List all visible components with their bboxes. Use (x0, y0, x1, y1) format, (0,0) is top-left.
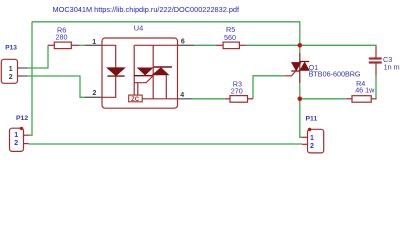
svg-text:560: 560 (224, 33, 236, 42)
svg-text:1: 1 (14, 132, 18, 139)
svg-text:P11: P11 (306, 116, 318, 123)
resistor R5 (216, 42, 246, 49)
LED inside U4 (102, 45, 116, 97)
wire node B to P11 pin1 (300, 99, 302, 138)
label R3 (231, 80, 243, 96)
label P12 (16, 115, 28, 122)
svg-text:1: 1 (92, 39, 96, 46)
label R4 (355, 79, 375, 95)
svg-text:280: 280 (56, 33, 68, 42)
svg-text:2: 2 (310, 143, 314, 150)
svg-text:ZC: ZC (131, 97, 140, 103)
svg-text:1: 1 (9, 66, 13, 73)
wire P13 pin1 to R6 (27, 45, 48, 68)
wire U4 pin4 to R3 (192, 98, 225, 100)
connector P11 (302, 128, 324, 153)
pin 4 (178, 98, 193, 100)
wire R3 to Q1 gate (253, 76, 285, 99)
wire Q1 vertical (node A to node B) (299, 45, 301, 99)
svg-text:BTB06-600BRG: BTB06-600BRG (309, 70, 361, 79)
pin 2 (85, 96, 102, 98)
wire node A to C3 (300, 45, 376, 46)
connector P12 (10, 127, 29, 152)
svg-text:MOC3041M https://lib.chipdip.r: MOC3041M https://lib.chipdip.ru/222/DOC0… (53, 5, 241, 14)
wire P13 pin2 to U4 pin2 (27, 76, 85, 97)
label U4 (134, 23, 143, 32)
wire R5 to node A (246, 44, 300, 46)
svg-text:P12: P12 (16, 115, 28, 122)
label P13 (5, 45, 17, 52)
pin 6 (178, 44, 195, 46)
label Q1 (309, 63, 361, 79)
node A junction dot (298, 43, 303, 48)
svg-text:270: 270 (231, 87, 243, 96)
node B junction dot (298, 97, 303, 102)
svg-text:1n mk: 1n mk (384, 62, 400, 71)
svg-text:6: 6 (181, 39, 185, 46)
capacitor C3 (369, 46, 382, 76)
ZC block (129, 95, 143, 102)
wire U4 pin6 to R5 (194, 44, 216, 46)
resistor R4 (347, 96, 377, 103)
label R5 (224, 25, 236, 42)
op-amp U4 (optocoupler MOC3041M) (85, 38, 194, 108)
wire R6 to U4 pin1 (79, 44, 85, 46)
label C3 (383, 55, 400, 71)
wire R4 to node B (300, 98, 347, 100)
svg-text:2: 2 (9, 74, 13, 81)
resistor R3 (225, 96, 253, 103)
svg-text:P13: P13 (5, 45, 17, 52)
label P11 (306, 116, 318, 123)
svg-text:2: 2 (14, 140, 18, 147)
svg-text:U4: U4 (134, 23, 143, 32)
pin 1 (85, 44, 102, 46)
resistor R6 (48, 42, 79, 49)
triac inside U4 (134, 45, 177, 99)
svg-text:4: 4 (180, 92, 184, 99)
title text (53, 5, 241, 14)
wire top net (P12 pin1 to top node) (28, 22, 300, 135)
wire C3 to R4 (375, 76, 377, 99)
transistor Q1 (triac) (285, 53, 310, 83)
connector P13 (1, 59, 27, 83)
svg-text:1: 1 (310, 135, 314, 142)
svg-text:2: 2 (93, 90, 97, 97)
wire P12 pin2 to P11 pin2 (bottom) (28, 143, 302, 145)
label R6 (56, 26, 68, 42)
svg-text:46 1w: 46 1w (355, 86, 375, 95)
